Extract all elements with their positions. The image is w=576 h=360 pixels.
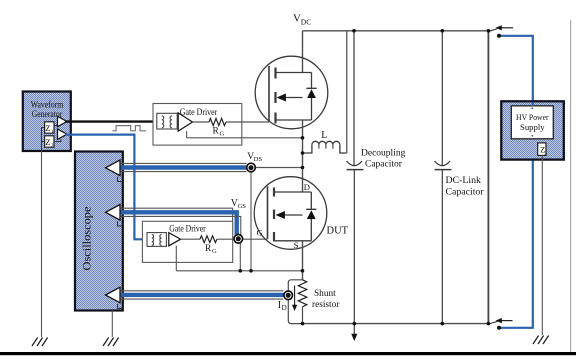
wire: shunt sense branch [288, 280, 302, 324]
svg-text:G: G [220, 131, 225, 138]
wire: gate of Q1 [226, 121, 269, 123]
svg-text:Waveform: Waveform [31, 99, 64, 110]
probe cable CH2 (blue pair) [120, 208, 241, 234]
box: waveform generator [23, 92, 71, 152]
junction: bottom rail / decoupling cap [353, 322, 357, 326]
scope input CH2 triangle [106, 205, 123, 227]
probe point V_GS [234, 235, 243, 244]
wire: HV supply negative lead (blue) [497, 160, 533, 330]
scope input CH3 triangle [106, 287, 123, 308]
wire: bottom return rail [303, 323, 489, 325]
buffer amplifier A1 [58, 116, 68, 126]
capacitor C1 decoupling [347, 31, 364, 341]
resistor RG2 [200, 236, 217, 243]
amplifier A3 (gate driver 1) [178, 113, 192, 131]
svg-text:L: L [321, 130, 327, 141]
arrow: top-right rail connection [489, 25, 513, 31]
label Decoupling Capacitor [361, 149, 406, 170]
probe cable CH3 (blue pair) [120, 291, 284, 299]
svg-text:D: D [282, 304, 287, 312]
svg-text:S: S [294, 240, 299, 250]
wire: DUT source return [176, 246, 302, 271]
junction: bottom rail / shunt [301, 322, 305, 326]
wire: VDC top rail [303, 30, 489, 32]
probe point V_DS [247, 163, 256, 172]
box: gate driver 2 [142, 221, 232, 262]
junction: bottom rail / right rail [487, 322, 491, 326]
svg-text:G: G [212, 248, 217, 255]
wire: A4 output to RG2 [181, 238, 200, 240]
ground (waveform generator) [32, 338, 48, 347]
net label V_GS [231, 198, 246, 210]
impedance Z3 (HV supply) [538, 143, 548, 157]
svg-text:resistor: resistor [312, 300, 340, 310]
wire: HV supply chassis lead [541, 155, 543, 335]
net label I_D [278, 300, 287, 312]
value label RG1 [213, 127, 225, 138]
svg-text:DC: DC [301, 17, 311, 26]
svg-text:Decoupling: Decoupling [361, 149, 406, 159]
scope input CH1 triangle [106, 160, 123, 182]
resistor R_shunt [298, 280, 307, 324]
label Shunt resistor [312, 289, 340, 310]
wire: switch node vertical [302, 120, 304, 192]
wire: Z2 to buffer A2 [54, 139, 61, 141]
wire: HV supply positive lead (blue) [497, 34, 533, 101]
box: oscilloscope [75, 152, 123, 311]
ground (oscilloscope) [103, 338, 119, 347]
wire: WG internal ground bus [42, 128, 45, 152]
amplifier A4 (gate driver 2) [169, 233, 181, 246]
probe point I_D [284, 291, 293, 300]
symbol: double pulse waveform [113, 126, 147, 131]
svg-text:R: R [213, 127, 220, 137]
svg-text:Gate Driver: Gate Driver [180, 107, 218, 117]
wire: scope ground lead [111, 311, 113, 338]
svg-text:DC-Link: DC-Link [446, 175, 481, 186]
svg-text:I: I [278, 300, 281, 311]
value label RG2 [205, 244, 217, 255]
junction: bottom rail / DC-link cap [441, 322, 445, 326]
svg-text:Gate Driver: Gate Driver [169, 223, 206, 233]
wire: A3 output to RG1 [193, 121, 210, 123]
junction: switch node / VDS probe stub [301, 166, 305, 170]
resistor RG1 [209, 118, 226, 125]
svg-text:DS: DS [254, 156, 263, 163]
svg-text:R: R [205, 244, 212, 254]
inductor L [303, 141, 347, 153]
junction: switch node / inductor L [301, 151, 305, 155]
svg-text:G: G [257, 228, 263, 238]
svg-text:Z: Z [45, 137, 50, 147]
wire: DUT source lead [302, 241, 304, 280]
svg-text:Supply: Supply [520, 122, 545, 132]
net label V_DS [247, 152, 262, 163]
svg-text:DUT: DUT [327, 226, 349, 237]
wire: VGS probe reference [239, 243, 241, 271]
box: HV power supply [501, 101, 564, 159]
optocoupler U1 [157, 113, 177, 129]
wire: WG output 1 to gate driver 1 [65, 120, 157, 122]
ground (HV supply) [533, 336, 549, 345]
label DC-Link Capacitor [446, 175, 485, 198]
impedance Z2 [45, 136, 54, 149]
junction: VDC rail / DC-link cap [441, 29, 445, 33]
net label V_DC [293, 13, 311, 27]
impedance Z1 [45, 122, 54, 135]
wire: HV positive stub inside supply [532, 102, 534, 106]
wire: RG2 to gate of DUT [217, 238, 268, 240]
wire: Z1 to buffer A1 [54, 125, 58, 127]
junction: VDC rail / decoupling cap [352, 29, 356, 33]
optocoupler U2 [147, 233, 166, 247]
svg-text:Capacitor: Capacitor [365, 159, 403, 169]
junction: switch node / Q1 source return [301, 136, 305, 140]
wire: L to VDC rail [346, 31, 348, 153]
svg-text:D: D [304, 182, 310, 192]
junction: source return / VDS reference [249, 269, 253, 273]
probe cable CH1 (blue pair) [120, 163, 247, 171]
wire: right vertical rail [487, 31, 489, 324]
svg-text:GS: GS [238, 203, 247, 210]
wire: Q1 drain riser [302, 31, 304, 73]
transistor Q1 (high-side MOSFET) [255, 56, 328, 129]
svg-text:Shunt: Shunt [314, 289, 336, 299]
wire: WG ground lead [41, 151, 43, 337]
wire: Q1 source return [187, 131, 303, 138]
wire: VDS probe stub to switch node [255, 167, 302, 169]
junction: VDC rail / right rail [487, 29, 491, 33]
buffer amplifier A2 [58, 129, 68, 139]
svg-text:HV Power: HV Power [516, 112, 549, 122]
svg-text:V: V [293, 13, 301, 25]
arrow: shunt current direction [292, 286, 297, 312]
box: gate driver 1 [153, 104, 242, 146]
capacitor C2 DC-link [435, 31, 452, 324]
wire: VDS probe reference [250, 172, 252, 271]
svg-text:Capacitor: Capacitor [446, 187, 485, 198]
junction: source return / VGS reference [239, 269, 243, 273]
svg-text:Oscilloscope: Oscilloscope [79, 207, 93, 271]
wire: WG output 2 to gate driver 2 (blue) [65, 135, 149, 240]
svg-text:Z: Z [45, 123, 50, 133]
junction: source return / DUT source [301, 269, 305, 273]
transistor Q2 (DUT MOSFET) [254, 177, 327, 250]
arrow: bottom-right rail connection [489, 318, 513, 324]
